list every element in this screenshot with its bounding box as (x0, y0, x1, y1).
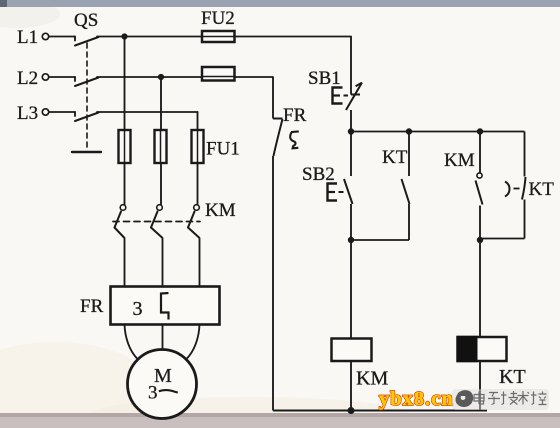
wire KT coil to bottom rail (479, 361, 481, 411)
svg-text:L1: L1 (17, 27, 38, 48)
terminal L1 (42, 33, 48, 39)
node rail-KM aux (477, 128, 483, 134)
wire SB1 to rail (350, 110, 352, 132)
KM linkage dashed (113, 221, 200, 223)
QS blade pole 3 (75, 113, 99, 122)
svg-text:KT: KT (382, 147, 408, 168)
svg-text:3: 3 (148, 383, 158, 404)
button SB2 actuator (328, 184, 338, 201)
svg-text:L2: L2 (17, 68, 38, 89)
terminal L2 (42, 74, 48, 80)
wire rail corner to KT NC (524, 132, 526, 177)
wire L3 (97, 111, 198, 113)
wire KM aux lower (479, 206, 481, 241)
fuse FU1-c (192, 130, 204, 163)
svg-text:KM: KM (444, 150, 475, 171)
fuse FU1-b (155, 130, 167, 163)
bottom border bar (0, 413, 560, 428)
node L1-A junction (121, 33, 127, 39)
wire KT NC lower (524, 200, 526, 239)
wire L1 corner down to SB1 (350, 37, 352, 95)
fuse FU2b (L2) (202, 67, 235, 81)
svg-text:KT: KT (499, 366, 526, 388)
motor M (128, 350, 197, 419)
wire KT to SB2 node (351, 239, 409, 241)
wire SB2 lower (350, 204, 352, 240)
contact FR NC tick (273, 118, 283, 120)
svg-text:ybx8.cn: ybx8.cn (379, 388, 454, 410)
wire L1 from terminal to QS (49, 36, 75, 38)
control circuit (273, 37, 526, 411)
watermark badge 电子技术控 (452, 389, 549, 410)
wire pole1 to FR box (124, 238, 126, 287)
wire to KM coil (350, 240, 352, 339)
button SB1 blade (346, 83, 362, 111)
fuse FU2 (L1) (202, 31, 235, 42)
svg-text:KM: KM (205, 200, 236, 221)
QS blade pole 2 (75, 78, 99, 87)
wire L1 to SB1 branch (97, 36, 351, 38)
wire L3 from terminal to QS (49, 111, 75, 113)
wire FR box to motor mid (162, 325, 164, 351)
wire FR box to motor left (125, 325, 138, 360)
contact KM aux blade (476, 181, 483, 205)
wire L2 to FR branch (97, 76, 273, 78)
wire KM aux upper (479, 132, 481, 173)
watermark char 电 (474, 392, 484, 405)
svg-text:KT: KT (529, 179, 555, 200)
bottom rail (273, 410, 487, 412)
contact KT NO blade (402, 179, 410, 204)
node KM aux-KT NC join (477, 237, 483, 243)
wire L2 from terminal to QS (49, 76, 75, 78)
wire KT contact lower (408, 204, 410, 240)
wire SB2 upper (350, 132, 352, 177)
svg-text:SB2: SB2 (302, 164, 335, 185)
wire FR branch to bottom rail (272, 156, 274, 411)
FR trip hook (290, 131, 299, 148)
svg-text:3: 3 (133, 298, 143, 320)
coil KT (half filled) (458, 337, 507, 361)
contact KT NC delayed blade (522, 177, 526, 200)
wire pole2 to FR box (162, 238, 164, 287)
watermark char 控 (531, 392, 547, 405)
node rail-KT (406, 128, 412, 134)
button SB1 NC tick (351, 94, 360, 96)
KM pole 1 blade (120, 205, 126, 211)
top border bar (0, 0, 560, 7)
svg-text:KM: KM (356, 368, 388, 390)
fuse FU1-a (119, 130, 131, 163)
contactor KM main contacts (113, 205, 200, 238)
QS blade pole 1 (75, 37, 99, 46)
wire FR box to motor right (186, 325, 199, 360)
svg-text:FR: FR (80, 296, 104, 317)
button SB1 actuator (333, 88, 343, 104)
coil KM (332, 339, 372, 362)
wire phase C drop (197, 112, 199, 205)
contact FR NC blade (274, 119, 283, 156)
watermark char 技 (501, 391, 518, 405)
watermark char 子 (488, 393, 500, 405)
watermark ybx8.cn (379, 388, 454, 410)
KM aux contact circle (477, 173, 482, 178)
wire KT contact upper (408, 132, 410, 177)
node rail-SB2 (348, 128, 354, 134)
control rail (351, 131, 525, 133)
node bottom rail (348, 407, 355, 414)
terminal L3 (42, 109, 48, 115)
wire phase A drop (124, 37, 126, 206)
svg-text:SB1: SB1 (308, 68, 341, 89)
wire pole3 to FR box (199, 238, 201, 287)
FR heater element symbol (161, 293, 169, 320)
watermark char 术 (518, 391, 530, 405)
wire to KT coil (479, 240, 481, 337)
KM pole 3 blade (194, 205, 200, 211)
svg-text:L3: L3 (17, 103, 38, 124)
wire FR branch down (272, 77, 274, 119)
svg-text:FU2: FU2 (201, 8, 235, 29)
node L2-B junction (158, 74, 164, 80)
motor tilde (159, 390, 178, 392)
QS linkage end bar (72, 151, 101, 153)
node SB2-KT join (348, 237, 354, 243)
KM pole 2 blade (157, 205, 163, 211)
wire KM coil to bottom rail (350, 361, 352, 411)
thermal relay FR box (111, 287, 220, 325)
wire phase B drop (160, 77, 162, 205)
svg-text:FU1: FU1 (206, 139, 240, 160)
button SB2 blade (344, 179, 353, 204)
watermark logo blob (455, 390, 473, 407)
QS linkage dashed (86, 43, 88, 150)
contact KT NC delay arc (505, 182, 510, 197)
svg-text:FR: FR (283, 105, 307, 126)
svg-text:QS: QS (74, 10, 98, 31)
